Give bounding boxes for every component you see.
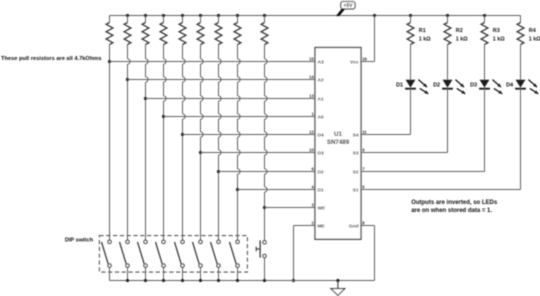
svg-text:A1: A1 (318, 96, 324, 102)
svg-text:13: 13 (309, 94, 314, 99)
svg-text:16: 16 (362, 57, 367, 62)
svg-text:1 kΩ: 1 kΩ (529, 37, 540, 43)
svg-text:10: 10 (309, 148, 314, 153)
svg-text:These pull resistors are all 4: These pull resistors are all 4.7kOhms (1, 56, 102, 62)
svg-text:D2: D2 (433, 82, 440, 88)
svg-text:14: 14 (309, 75, 314, 80)
svg-text:S2: S2 (353, 169, 359, 175)
svg-text:D4: D4 (318, 132, 324, 138)
svg-text:DIP switch: DIP switch (65, 237, 94, 243)
svg-text:D4: D4 (506, 82, 514, 88)
svg-text:+5V: +5V (343, 3, 353, 9)
svg-text:11: 11 (362, 130, 367, 135)
svg-text:R3: R3 (493, 28, 500, 34)
svg-text:A0: A0 (318, 114, 324, 120)
svg-text:S1: S1 (353, 187, 359, 193)
svg-text:Outputs are inverted, so LEDs: Outputs are inverted, so LEDs (411, 200, 498, 206)
svg-text:ME: ME (318, 223, 326, 229)
svg-text:SN7489: SN7489 (327, 139, 350, 146)
svg-text:D1: D1 (396, 82, 403, 88)
svg-text:15: 15 (309, 57, 314, 62)
svg-text:S4: S4 (353, 132, 359, 138)
svg-text:1 kΩ: 1 kΩ (419, 37, 431, 43)
svg-text:1 kΩ: 1 kΩ (456, 37, 468, 43)
svg-text:R4: R4 (529, 28, 536, 34)
svg-text:U1: U1 (334, 131, 342, 138)
svg-text:D1: D1 (318, 187, 324, 193)
svg-text:D2: D2 (318, 169, 324, 175)
svg-text:WE: WE (318, 205, 327, 211)
svg-text:12: 12 (309, 130, 314, 135)
svg-text:1 kΩ: 1 kΩ (493, 37, 505, 43)
svg-text:are on when stored data = 1.: are on when stored data = 1. (411, 208, 492, 214)
svg-text:A2: A2 (318, 77, 324, 83)
svg-text:Vcc: Vcc (350, 59, 359, 65)
svg-text:Gnd: Gnd (349, 223, 359, 229)
svg-text:R1: R1 (419, 28, 426, 34)
svg-text:S3: S3 (353, 150, 359, 156)
svg-text:R2: R2 (456, 28, 463, 34)
svg-text:D3: D3 (470, 82, 477, 88)
svg-text:A3: A3 (318, 59, 324, 65)
svg-text:D3: D3 (318, 150, 324, 156)
